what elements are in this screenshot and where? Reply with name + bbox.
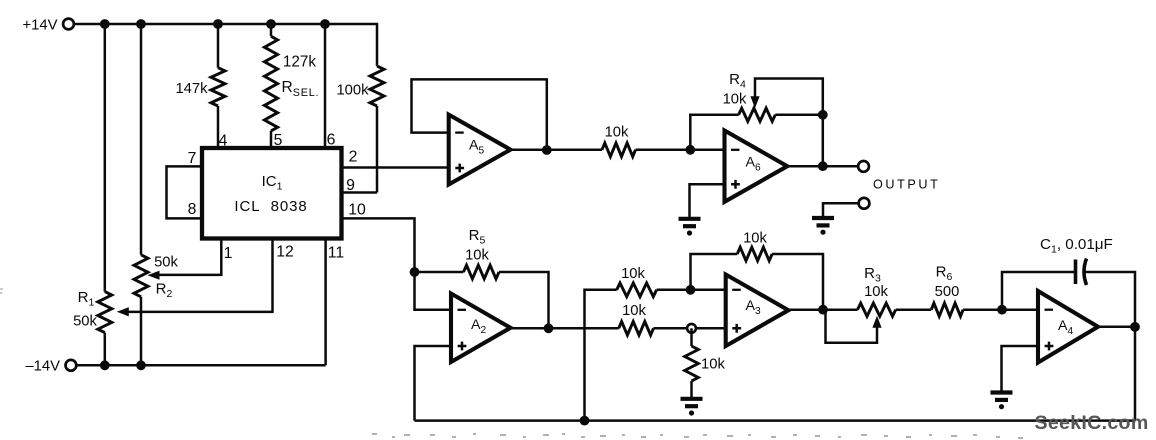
wire rail to 147k: [217, 24, 220, 68]
svg-text:6: 6: [327, 132, 336, 149]
node A3 output: [818, 305, 828, 315]
wire R1 bottom to -14V rail: [104, 333, 107, 366]
resistor RSEL 127k: [264, 36, 277, 131]
node A2 -input / R5: [410, 267, 420, 277]
resistor 10k to A3 -input: [617, 283, 657, 297]
potentiometer R1 50k: [98, 292, 112, 333]
wire A3 feedback up: [691, 254, 738, 290]
wire A6 -node up to R4: [690, 115, 738, 150]
svg-text:4: 4: [219, 133, 228, 150]
svg-text:147k: 147k: [175, 81, 208, 97]
wire +14V rail: [74, 23, 376, 26]
svg-text:10k: 10k: [701, 357, 725, 373]
svg-text:–14V: –14V: [25, 359, 60, 375]
wire R3 to R6: [896, 308, 932, 311]
wire A3 10k to ground: [690, 328, 693, 346]
resistor R6 500: [931, 303, 963, 316]
wire A4 +input to ground: [1002, 346, 1039, 392]
wire A3 output row: [788, 308, 857, 311]
wire 100k to pin 9: [376, 106, 379, 193]
wire A6 output: [787, 165, 858, 168]
svg-text:50k: 50k: [73, 314, 97, 330]
wire pin 11 to -14V rail: [324, 239, 327, 366]
svg-text:10k: 10k: [622, 303, 646, 319]
node -14V / R1: [100, 360, 110, 370]
wire lower terminal to ground: [823, 203, 858, 217]
node A5 output: [542, 145, 552, 155]
resistor R5 10k: [464, 265, 500, 279]
wire rail to 127k: [270, 24, 273, 36]
resistor 100k: [370, 66, 384, 106]
wire R3 wiper loop: [826, 310, 878, 343]
svg-text:ICL 8038: ICL 8038: [234, 198, 307, 215]
arrowhead R3 wiper: [872, 316, 881, 328]
wire R5 right to A2 output: [499, 272, 549, 328]
-14V supply terminal: [66, 360, 77, 371]
node A2 output: [544, 323, 554, 333]
IC U1 ICL8038 box: [202, 148, 342, 239]
svg-text:OUTPUT: OUTPUT: [873, 178, 940, 192]
node bottom rail riser: [580, 416, 590, 426]
wire R4 wiper loop: [755, 79, 823, 115]
svg-text:10k: 10k: [864, 284, 888, 300]
svg-text:10k: 10k: [743, 231, 767, 247]
node A6 -input: [685, 145, 695, 155]
node top rail / R2 branch: [136, 19, 146, 29]
svg-text:50k: 50k: [154, 255, 178, 271]
wire A4 -node up to C1: [1002, 272, 1076, 310]
arrowhead R2 wiper: [148, 271, 160, 280]
wire A5 output: [511, 149, 603, 152]
wire +14V to R2 top: [140, 24, 143, 255]
wire riser to 10k upper: [585, 290, 617, 421]
svg-text:10k: 10k: [621, 266, 645, 282]
wire A2 +input to bottom rail: [415, 346, 452, 421]
svg-text:2: 2: [349, 149, 358, 166]
ground output: [812, 216, 834, 220]
op-amp A4: [1038, 291, 1098, 363]
node top rail / pin6 branch: [320, 19, 330, 29]
svg-text:10k: 10k: [723, 92, 747, 108]
wire pin 9 to 100k: [342, 191, 378, 194]
wire pin 10 to A2 -input: [342, 218, 452, 309]
ground A3 input divider: [681, 397, 703, 401]
resistor 10k A5-A6: [602, 143, 636, 157]
resistor 147k: [211, 68, 225, 106]
resistor 10k A3 feedback: [737, 247, 772, 261]
svg-text:500: 500: [935, 284, 960, 300]
node top rail / 147k branch: [213, 19, 223, 29]
node A4 -input: [997, 305, 1007, 315]
svg-text:127k: 127k: [283, 54, 317, 71]
wire C1 to A4 output: [1085, 272, 1135, 327]
wire pin 2 to A5 +input: [342, 166, 449, 169]
wire 127k to pin 5: [270, 131, 273, 148]
svg-text:+14V: +14V: [23, 18, 58, 34]
svg-text:10: 10: [348, 202, 366, 219]
capacitor C1 left plate: [1074, 260, 1078, 285]
wire 10k to ground: [690, 381, 693, 398]
op-amp A6: [725, 131, 788, 202]
op-amp A5: [449, 115, 511, 185]
wire +14V to R1 top: [104, 24, 107, 292]
stray mark left edge: [0, 288, 3, 290]
potentiometer R4 10k: [739, 108, 776, 121]
node R4 right: [818, 110, 828, 120]
wire pin 1 to R2 wiper: [158, 239, 221, 275]
wire A6 +input to ground: [690, 184, 725, 218]
svg-text:C1, 0.01μF: C1, 0.01μF: [1040, 236, 1113, 256]
node A3 +input open: [687, 324, 696, 333]
wire pin 12 to R1 wiper: [128, 239, 273, 312]
wire A3 feedback right: [772, 254, 823, 310]
wire pin7-pin8 loop: [167, 166, 203, 218]
svg-text:10k: 10k: [605, 125, 629, 141]
wire rail to pin 6: [324, 24, 327, 148]
svg-text:8: 8: [188, 201, 197, 218]
node top rail / R1 branch: [100, 19, 110, 29]
wire 10k to A3 +input: [654, 327, 726, 330]
wire R2 bottom to -14V rail: [140, 297, 143, 366]
capacitor C1 right plate: [1084, 259, 1087, 286]
output terminal lower: [859, 198, 870, 209]
wire A5 feedback loop: [412, 79, 547, 150]
resistor 10k to A3 +input: [619, 322, 654, 336]
wire bottom rail: [415, 419, 1136, 422]
node -14V / R2: [136, 360, 146, 370]
wire -14V rail: [77, 364, 326, 367]
svg-text:12: 12: [276, 244, 294, 261]
svg-text:7: 7: [188, 150, 197, 167]
svg-text:100k: 100k: [336, 83, 369, 99]
wire A4 output down to rail: [1134, 327, 1137, 421]
wire R4 right to node: [775, 114, 823, 117]
wire A2 output row: [511, 327, 619, 330]
svg-text:1: 1: [224, 245, 233, 262]
potentiometer R3 10k: [858, 303, 896, 316]
wire A4 output: [1098, 325, 1135, 328]
wire rail corner to 100k: [375, 24, 378, 66]
wire 147k to pin 4: [217, 106, 220, 148]
node A3 -input: [686, 285, 696, 295]
wire 10k to A6 -input: [636, 149, 725, 152]
svg-text:SeekIC.com: SeekIC.com: [1034, 412, 1148, 434]
+14V supply terminal: [63, 19, 74, 30]
op-amp A2: [451, 294, 511, 363]
wire R5 left: [415, 271, 464, 274]
wire 10k to A3 -input: [657, 289, 726, 292]
svg-text:5: 5: [274, 132, 283, 149]
ground A6: [679, 217, 701, 221]
svg-text:10k: 10k: [465, 248, 489, 264]
op-amp A3: [726, 275, 789, 347]
ground A4: [991, 390, 1013, 394]
svg-text:11: 11: [328, 245, 345, 262]
caption remnants bottom edge: [372, 433, 377, 435]
arrowhead R1 wiper: [117, 307, 129, 316]
node top rail / 127k branch: [266, 19, 276, 29]
wire R6 to A4 -input: [963, 308, 1038, 311]
node A4 output: [1130, 322, 1140, 332]
resistor 10k A3 +input to ground: [685, 346, 699, 381]
wire R4 node to A6 output: [822, 115, 825, 166]
output terminal upper: [858, 161, 869, 172]
arrowhead R4 wiper: [750, 96, 759, 108]
node A6 output: [818, 161, 828, 171]
potentiometer R2 50k: [134, 255, 148, 297]
